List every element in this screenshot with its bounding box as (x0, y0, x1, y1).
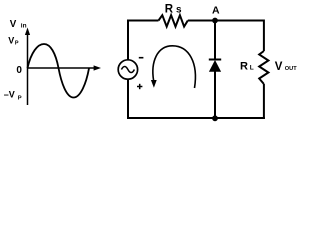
svg-text:A: A (212, 5, 220, 17)
diode D1 (209, 60, 221, 72)
svg-text:V: V (275, 61, 283, 73)
polarity minus (139, 57, 144, 59)
current loop arrow (151, 46, 196, 88)
svg-text:P: P (18, 95, 22, 101)
svg-text:R: R (240, 61, 248, 73)
wire right upper segment (263, 20, 265, 52)
svg-text:OUT: OUT (285, 66, 297, 72)
node A junction dot (212, 18, 218, 24)
svg-text:P: P (15, 40, 19, 46)
wire left lower segment (127, 80, 129, 119)
wire diode branch upper (214, 21, 216, 60)
svg-text:V: V (10, 19, 17, 30)
svg-text:0: 0 (16, 65, 22, 76)
resistor Rs (159, 15, 188, 26)
wire bottom (127, 117, 265, 119)
svg-text:in: in (21, 23, 27, 30)
wire left upper segment (127, 20, 129, 60)
svg-text:L: L (250, 65, 254, 72)
svg-text:V: V (8, 35, 14, 45)
polarity plus (137, 84, 142, 89)
Vin graph vertical axis (25, 28, 30, 106)
wire right lower segment (263, 84, 265, 119)
resistor RL (259, 51, 268, 84)
AC source VS (118, 60, 137, 79)
junction dot bottom (212, 115, 218, 121)
wire top left segment (127, 20, 159, 22)
wire top right segment (188, 20, 265, 22)
Vin graph horizontal axis (27, 65, 101, 70)
wire diode branch lower (214, 72, 216, 119)
svg-text:R: R (165, 3, 174, 15)
svg-text:s: s (176, 4, 182, 15)
svg-text:–V: –V (4, 89, 15, 99)
sine wave Vin (28, 44, 90, 98)
